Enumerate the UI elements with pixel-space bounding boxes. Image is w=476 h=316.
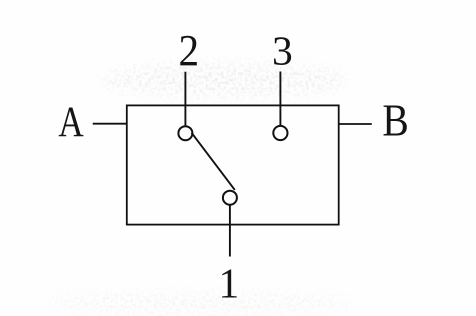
svg-text:3: 3	[272, 28, 293, 74]
switch body box (relay/selector enclosure)	[127, 105, 339, 224]
switch lever arm (pole 1 to throw 2)	[192, 133, 235, 190]
svg-text:A: A	[58, 99, 83, 146]
svg-text:2: 2	[179, 26, 200, 75]
wire terminal 2 lead	[184, 72, 186, 126]
contact circle under 2	[178, 126, 192, 140]
svg-text:1: 1	[219, 262, 240, 308]
wire terminal B lead	[339, 123, 372, 125]
contact circle node 1	[223, 191, 237, 205]
scan noise band top	[100, 63, 350, 97]
scan noise band bottom	[45, 292, 355, 314]
contact circle under 3	[273, 126, 287, 140]
wire terminal 1 lead	[229, 206, 231, 257]
wire terminal 3 lead	[279, 72, 281, 126]
wire terminal A lead	[93, 123, 127, 125]
svg-text:B: B	[382, 96, 408, 146]
